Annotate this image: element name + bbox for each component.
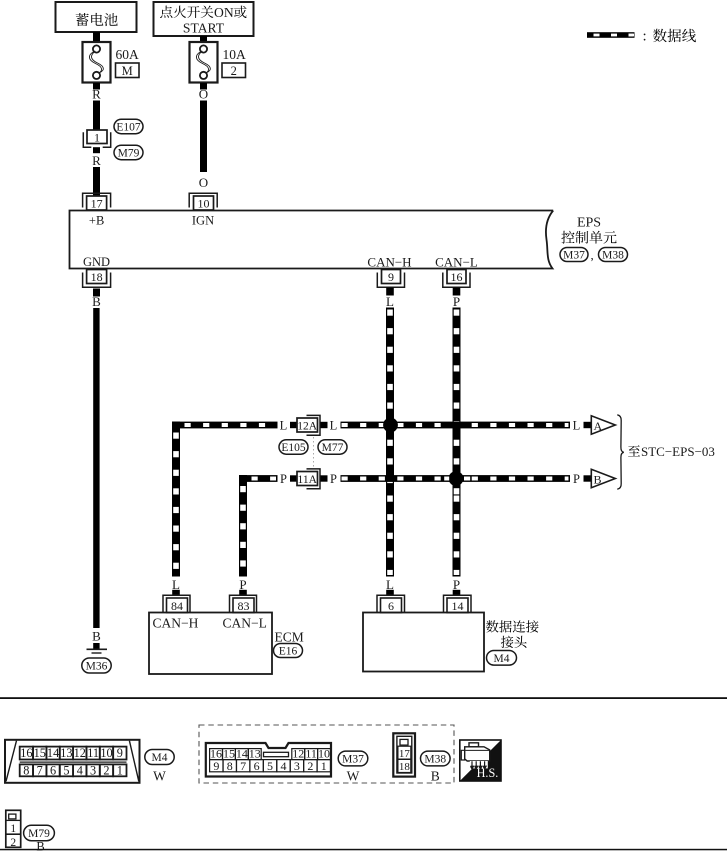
wire 12A to junction to A [341,422,571,429]
svg-text:CAN−H: CAN−H [153,616,199,631]
wire CAN-H L data line [386,288,394,296]
junction CAN-L [449,471,464,486]
svg-text:O: O [199,175,208,190]
EPS pin 18 [83,270,111,288]
svg-text:M38: M38 [602,249,624,261]
svg-text:6: 6 [388,599,394,613]
svg-text:7: 7 [37,763,43,777]
svg-text:P: P [280,472,287,486]
svg-text:+B: +B [89,214,104,228]
ignition switch 点火开关ON或START [154,2,254,36]
svg-text:P: P [573,472,580,486]
svg-text:CAN−L: CAN−L [435,255,478,270]
CAN-L bus horizontal wire [240,475,278,482]
svg-text:B: B [431,769,440,784]
svg-text:10: 10 [100,746,112,760]
svg-text:11: 11 [87,746,99,760]
svg-text:2: 2 [231,64,237,78]
svg-text:7: 7 [240,759,246,773]
svg-text:9: 9 [213,759,219,773]
svg-text:14: 14 [452,599,464,613]
connector label M37 W [338,751,368,783]
svg-text:9: 9 [117,746,123,760]
svg-text:14: 14 [47,746,59,760]
connector label M4 W [145,750,174,784]
wire fuse to connector, R [93,83,100,90]
svg-text:17: 17 [399,748,411,760]
svg-text:R: R [92,153,101,168]
off-page arrow B [591,469,615,487]
svg-text:R: R [92,87,101,102]
svg-text:2: 2 [10,837,16,849]
svg-text:W: W [153,769,166,784]
svg-text:1: 1 [94,130,100,144]
connector label E107 [114,119,143,133]
svg-text::: : [643,29,647,45]
connector 11A (E105/M77) [297,469,320,489]
svg-text:6: 6 [254,759,260,773]
svg-text:M: M [122,64,133,78]
CAN-H bus horizontal wire [173,422,278,429]
svg-text:,: , [591,248,594,263]
svg-text:M77: M77 [322,442,344,454]
svg-text:B: B [92,294,101,309]
connector label M79 [114,145,143,159]
wire crossing patches [386,475,394,481]
svg-text:P: P [239,577,246,592]
svg-text:M4: M4 [152,752,168,764]
svg-text:CAN−L: CAN−L [223,616,267,631]
svg-text:5: 5 [267,759,273,773]
svg-text:16: 16 [20,746,32,760]
data link connector box M4 [363,613,484,672]
svg-text:L: L [330,419,338,433]
svg-text:17: 17 [91,197,103,211]
svg-text:3: 3 [294,759,300,773]
svg-text:M37: M37 [342,753,364,765]
svg-text:1: 1 [10,823,16,835]
EPS pin 17 [83,193,111,210]
svg-text:8: 8 [23,763,29,777]
svg-text:18: 18 [399,761,411,773]
svg-text:E105: E105 [281,442,306,454]
connector face M38 [393,733,415,776]
svg-text:ON: ON [214,5,234,20]
svg-text:A: A [594,419,603,433]
wire CAN-L P data line [453,288,461,296]
wire battery to fuse [93,32,100,42]
svg-text:2: 2 [307,759,313,773]
svg-text:13: 13 [60,746,72,760]
EPS pin 10 [189,193,217,210]
ECM box E16 [149,613,272,675]
svg-text:60A: 60A [116,47,140,62]
svg-text:M79: M79 [118,147,140,159]
svg-text:O: O [199,87,208,102]
fuse 10A 2 [190,42,247,83]
ECM pin 83 [230,595,257,613]
svg-text:B: B [92,629,101,644]
DLC pin 6 [377,595,405,613]
connector face M37 [206,743,331,777]
wire ignition to fuse [200,36,207,42]
svg-text:10: 10 [198,197,210,211]
EPS unit name [561,216,616,244]
svg-text:L: L [386,294,394,309]
connector label M38 B [421,751,451,783]
svg-text:L: L [172,577,180,592]
connector labels E105 M77 [279,440,347,454]
svg-text:8: 8 [227,759,233,773]
svg-text:START: START [183,21,225,36]
svg-text:L: L [280,419,288,433]
svg-text:83: 83 [238,599,250,613]
svg-text:84: 84 [171,599,183,613]
svg-text:P: P [453,294,460,309]
svg-text:EPS: EPS [577,216,601,231]
svg-text:STC−EPS−03: STC−EPS−03 [641,444,715,459]
svg-text:E107: E107 [116,121,141,133]
svg-text:4: 4 [280,759,286,773]
svg-text:IGN: IGN [192,214,214,228]
svg-text:CAN−H: CAN−H [367,255,411,270]
svg-text:4: 4 [77,763,83,777]
svg-text:5: 5 [63,763,69,777]
svg-text:M38: M38 [424,753,446,765]
svg-text:6: 6 [50,763,56,777]
svg-text:12: 12 [74,746,86,760]
H.S. emblem [460,740,501,781]
svg-text:15: 15 [34,746,46,760]
svg-text:11A: 11A [298,474,318,486]
wire fuse to EPS pin 10, O [200,83,207,90]
legend label 数据线 [643,29,696,45]
svg-text:10A: 10A [223,47,247,62]
junction CAN-H [383,418,398,433]
ECM pin 84 [163,595,190,613]
bottom rule [0,849,727,851]
branch wire down to ECM 83 [239,475,247,577]
connector 12A (E105/M77) [297,415,320,435]
svg-text:L: L [386,577,394,592]
svg-text:1: 1 [117,763,123,777]
brace to STC-EPS-03 [617,415,624,489]
wire R to EPS pin 17 [93,147,100,153]
legend data-line symbol [587,32,635,38]
connector 1 (E107/M79) [83,130,110,147]
svg-text:M79: M79 [28,828,50,840]
dotted connector link 12A-11A [313,437,315,468]
svg-text:9: 9 [388,270,394,284]
svg-text:B: B [594,472,602,486]
ground M36 [87,648,108,650]
DLC pin 14 [444,595,472,613]
wire 11A to junction to B [341,475,571,482]
battery 蓄电池 [56,2,137,32]
EPS pin 9 [377,270,404,288]
svg-text:12A: 12A [297,420,318,432]
dashed connector group box [199,725,454,783]
svg-text:M37: M37 [563,249,585,261]
EPS control unit M37 M38 [70,211,554,269]
svg-text:2: 2 [103,763,109,777]
svg-text:M4: M4 [494,653,510,665]
svg-text:L: L [573,419,581,433]
svg-text:16: 16 [451,270,463,284]
connector labels M37, M38 [560,248,628,263]
svg-text:18: 18 [91,270,103,284]
branch wire down to ECM 84 [172,422,180,577]
svg-text:P: P [453,577,460,592]
svg-text:E16: E16 [279,645,298,657]
connector face M4 [5,740,140,783]
svg-text:ECM: ECM [275,630,304,645]
connector label M79 B [24,825,55,852]
svg-text:W: W [347,769,360,784]
fuse 60A M [83,42,140,83]
svg-text:3: 3 [90,763,96,777]
svg-text:P: P [330,472,337,486]
svg-text:M36: M36 [86,660,108,672]
connector face M79 [6,810,21,849]
EPS pin 16 [443,270,470,288]
separator line [0,697,727,699]
svg-text:1: 1 [321,759,327,773]
wire GND B [93,289,100,297]
off-page arrow A [591,416,615,434]
svg-text:GND: GND [83,255,110,269]
